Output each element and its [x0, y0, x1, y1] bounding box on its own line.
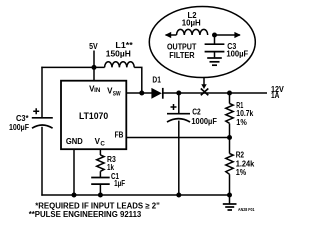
- left arrow of filter: [166, 34, 177, 36]
- wire GND pin: [73, 149, 75, 195]
- wire VSW pin: [126, 92, 151, 94]
- wire FB: [126, 137, 229, 139]
- svg-text:C2: C2: [192, 107, 201, 116]
- output filter ellipse: [149, 7, 255, 78]
- svg-text:**PULSE ENGINEERING 92113: **PULSE ENGINEERING 92113: [29, 210, 142, 219]
- node FB junction: [227, 135, 232, 140]
- svg-text:1.24k: 1.24k: [236, 160, 255, 169]
- svg-text:OUTPUT: OUTPUT: [167, 42, 196, 51]
- wire 5V stem: [93, 51, 95, 68]
- right arrow of filter: [215, 34, 241, 36]
- inductor L2: [177, 29, 208, 35]
- node C1/rail junction: [98, 193, 103, 198]
- svg-text:1%: 1%: [236, 118, 247, 127]
- svg-text:D1: D1: [152, 76, 161, 85]
- svg-text:*REQUIRED IF INPUT LEADS ≥ 2": *REQUIRED IF INPUT LEADS ≥ 2": [35, 201, 160, 210]
- svg-text:C: C: [100, 141, 105, 148]
- bottom rail: [41, 194, 229, 196]
- svg-text:C3*: C3*: [16, 114, 29, 123]
- wire output rail: [163, 92, 267, 94]
- resistor R1: [229, 93, 231, 104]
- svg-text:150µH: 150µH: [106, 50, 131, 59]
- IC U1 LT1070 box: [61, 81, 126, 150]
- svg-text:FILTER: FILTER: [169, 51, 195, 60]
- node C2/rail junction: [176, 193, 181, 198]
- svg-text:AN28 F01: AN28 F01: [238, 207, 255, 212]
- left rail bottom: [41, 127, 43, 196]
- capacitor C2: [178, 93, 180, 113]
- wire top rail: [41, 66, 104, 68]
- svg-text:1A: 1A: [271, 91, 280, 100]
- svg-text:L1**: L1**: [115, 41, 133, 50]
- svg-text:1%: 1%: [236, 168, 247, 177]
- svg-text:LT1070: LT1070: [79, 111, 108, 121]
- diode D1: [151, 88, 161, 99]
- svg-text:SW: SW: [113, 90, 121, 97]
- X insertion point: [201, 89, 209, 96]
- svg-text:10.7k: 10.7k: [236, 109, 253, 118]
- resistor R3: [97, 155, 104, 171]
- resistor R2: [229, 138, 231, 154]
- node L2/C3 junction: [212, 33, 217, 38]
- node VSW junction: [139, 91, 144, 96]
- capacitor C1: [91, 177, 110, 179]
- node R1 junction: [227, 91, 232, 96]
- inductor L1: [105, 62, 135, 68]
- svg-text:IN: IN: [94, 87, 101, 94]
- wire VIN stem: [93, 67, 95, 80]
- svg-text:GND: GND: [66, 137, 83, 146]
- svg-text:5V: 5V: [89, 42, 98, 51]
- svg-text:1000µF: 1000µF: [191, 117, 217, 126]
- svg-text:1µF: 1µF: [114, 179, 125, 188]
- node GND/rail junction: [72, 193, 77, 198]
- left rail top: [41, 67, 43, 118]
- capacitor C3 (filter): [214, 35, 216, 44]
- capacitor C3* input: [33, 108, 39, 114]
- node 5V/VIN junction: [92, 65, 97, 70]
- svg-text:R2: R2: [236, 151, 245, 160]
- arrow from filter into line: [203, 78, 205, 85]
- svg-text:100µF: 100µF: [9, 123, 29, 132]
- svg-text:10µH: 10µH: [182, 19, 201, 28]
- wire VC pin: [99, 149, 101, 155]
- ground (main): [229, 195, 231, 204]
- svg-text:100µF: 100µF: [226, 49, 248, 58]
- svg-text:FB: FB: [115, 131, 124, 140]
- wire L1 to VSW: [134, 67, 142, 93]
- ground (filter): [207, 57, 222, 59]
- node C2 junction: [176, 91, 181, 96]
- svg-text:1k: 1k: [107, 163, 114, 172]
- node ground junction: [227, 193, 232, 198]
